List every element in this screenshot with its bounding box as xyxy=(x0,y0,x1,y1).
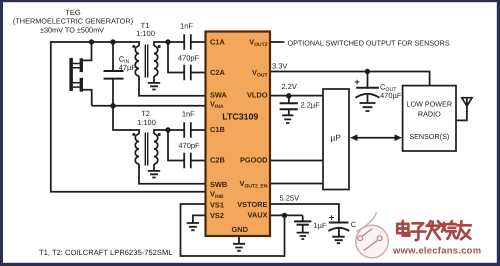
wire T1 secondary bottom to ground xyxy=(153,76,155,83)
svg-text:+: + xyxy=(355,77,360,87)
transformer T2 phasing dots xyxy=(132,133,135,136)
wire VLDO to uP box xyxy=(270,95,323,97)
svg-text:3.3V: 3.3V xyxy=(272,62,287,71)
capacitor CIN plates xyxy=(104,71,124,79)
radio box LOW POWER RADIO SENSOR(S) xyxy=(403,86,456,151)
capacitor 1uF xyxy=(294,215,311,239)
capacitor COUT 470uF polarized xyxy=(356,72,380,112)
svg-text:2.2V: 2.2V xyxy=(282,82,297,91)
ground VS2 xyxy=(187,223,199,230)
antenna xyxy=(456,98,472,121)
svg-text:C: C xyxy=(351,220,357,229)
svg-text:RADIO: RADIO xyxy=(418,109,441,118)
wire VSTORE to storage cap xyxy=(270,204,339,223)
svg-text:C1B: C1B xyxy=(210,125,225,134)
svg-text:LOW POWER: LOW POWER xyxy=(407,99,453,108)
svg-text:2.2µF: 2.2µF xyxy=(301,100,321,109)
wire T2 secondary top to node xyxy=(154,130,184,134)
svg-text:T1, T2: COILCRAFT LPR6235-752S: T1, T2: COILCRAFT LPR6235-752SML xyxy=(39,248,173,257)
svg-text:C2A: C2A xyxy=(210,68,225,77)
ground GND pin xyxy=(233,236,245,251)
svg-text:VAUX: VAUX xyxy=(248,211,268,220)
wire VS2 to ground xyxy=(193,215,206,223)
capacitor 1nF T2 plates xyxy=(184,122,191,137)
ground T2 secondary xyxy=(148,171,160,178)
svg-text:470µF: 470µF xyxy=(380,91,402,100)
svg-text:VSTORE: VSTORE xyxy=(237,200,267,209)
svg-text:5.25V: 5.25V xyxy=(280,194,300,203)
node VAUX junction xyxy=(282,213,287,218)
capacitor 470pF T2 plates xyxy=(184,153,191,168)
wire 470pF(T1) to C2A xyxy=(191,72,206,74)
wire VOUT 3.3V rail to radio box xyxy=(270,72,430,86)
watermark www.elecfans.com xyxy=(391,244,481,256)
svg-text:470pF: 470pF xyxy=(178,53,200,62)
transformer T1 secondary coil xyxy=(154,46,158,76)
svg-text:±30mV TO ±500mV: ±30mV TO ±500mV xyxy=(40,25,104,34)
wire TEG bottom lead to VINA rail xyxy=(83,90,92,106)
svg-text:SWB: SWB xyxy=(210,180,227,189)
wire T2 primary bottom to SWB xyxy=(139,164,206,184)
svg-text:OPTIONAL SWITCHED OUTPUT FOR S: OPTIONAL SWITCHED OUTPUT FOR SENSORS xyxy=(288,38,450,47)
ground T1 secondary xyxy=(148,83,160,90)
transformer T2 primary coil xyxy=(135,134,139,164)
wire VINA junction down to T2 primary top xyxy=(113,106,139,134)
capacitor C storage polarized xyxy=(328,223,349,244)
capacitor 2.2uF xyxy=(280,96,298,123)
wire T1 primary bottom to SWA xyxy=(139,76,206,96)
wire node down to 470pF(T2) xyxy=(168,130,184,161)
wire TEG top lead xyxy=(83,42,92,60)
svg-text:VS2: VS2 xyxy=(210,211,224,220)
wire PGOOD to uP box xyxy=(270,160,323,162)
svg-text:PGOOD: PGOOD xyxy=(240,156,268,165)
uP box xyxy=(323,89,349,190)
node 2.2uF junction xyxy=(286,93,291,98)
capacitor 470pF T1 plates xyxy=(184,65,191,80)
transformer T2 core xyxy=(145,133,147,166)
node T2 secondary / coupling caps xyxy=(165,127,170,132)
svg-text:www.elecfans.com: www.elecfans.com xyxy=(392,245,481,256)
node CIN bottom / VINA junction xyxy=(110,103,115,108)
wire label dash before optional xyxy=(282,41,285,43)
svg-text:+: + xyxy=(329,212,334,222)
svg-text:1nF: 1nF xyxy=(182,109,195,118)
wire left outer loop to VINB pin xyxy=(51,41,206,192)
svg-text:VS1: VS1 xyxy=(210,201,224,210)
svg-text:GND: GND xyxy=(232,225,249,234)
node COUT junction xyxy=(365,69,370,74)
wire TEG top rail to T1 primary xyxy=(51,42,139,46)
svg-text:SWA: SWA xyxy=(210,91,227,100)
svg-text:1:100: 1:100 xyxy=(137,118,156,127)
transformer T2 secondary coil xyxy=(154,134,158,164)
svg-text:µP: µP xyxy=(331,132,342,142)
capacitor 1nF T1 plates xyxy=(184,34,191,49)
svg-text:C2B: C2B xyxy=(210,156,225,165)
svg-text:1nF: 1nF xyxy=(180,21,193,30)
svg-text:47µF: 47µF xyxy=(119,63,137,72)
wire node down to 470pF(T1) xyxy=(168,42,184,73)
svg-text:1:100: 1:100 xyxy=(136,29,155,38)
svg-text:470pF: 470pF xyxy=(178,141,200,150)
watermark elecfans logo circle xyxy=(356,213,389,258)
wire VOUT2 stub xyxy=(270,41,282,43)
arrow uP to radio (double headed) xyxy=(350,134,402,141)
svg-text:LTC3109: LTC3109 xyxy=(222,112,258,122)
svg-text:T2: T2 xyxy=(141,109,150,118)
svg-text:(THERMOELECTRIC GENERATOR): (THERMOELECTRIC GENERATOR) xyxy=(13,16,133,25)
svg-text:VLDO: VLDO xyxy=(247,91,268,100)
wire 1nF(T1) to C1A xyxy=(191,41,206,43)
wire 1nF(T2) to C1B xyxy=(191,129,206,131)
wire T1 secondary top to node xyxy=(154,42,184,46)
watermark chinese characters dian zi fa shao you xyxy=(396,220,471,240)
wire VINA rail xyxy=(92,105,206,107)
wire VAUX loop down to VS1 xyxy=(181,204,285,256)
transformer T1 core xyxy=(145,45,147,78)
transformer T1 phasing dots xyxy=(132,45,135,48)
TEG thermoelectric generator symbol xyxy=(69,58,83,92)
op-amp U1 LTC3109 IC body xyxy=(206,32,271,237)
wire 470pF(T2) to C2B xyxy=(191,160,206,162)
svg-text:SENSOR(S): SENSOR(S) xyxy=(409,132,449,141)
wire T2 secondary bottom to ground xyxy=(153,164,155,171)
wire CIN stems xyxy=(112,42,114,106)
wire VAUX to 1uF xyxy=(270,214,303,216)
node TEG+ on top rail xyxy=(89,39,94,44)
svg-text:C1A: C1A xyxy=(210,38,225,47)
node T1 secondary / coupling caps xyxy=(165,39,170,44)
node CIN top xyxy=(110,39,115,44)
svg-text:1µF: 1µF xyxy=(314,221,327,230)
wire VOUT2_EN to uP box xyxy=(270,183,323,185)
transformer T1 primary coil xyxy=(135,46,139,76)
